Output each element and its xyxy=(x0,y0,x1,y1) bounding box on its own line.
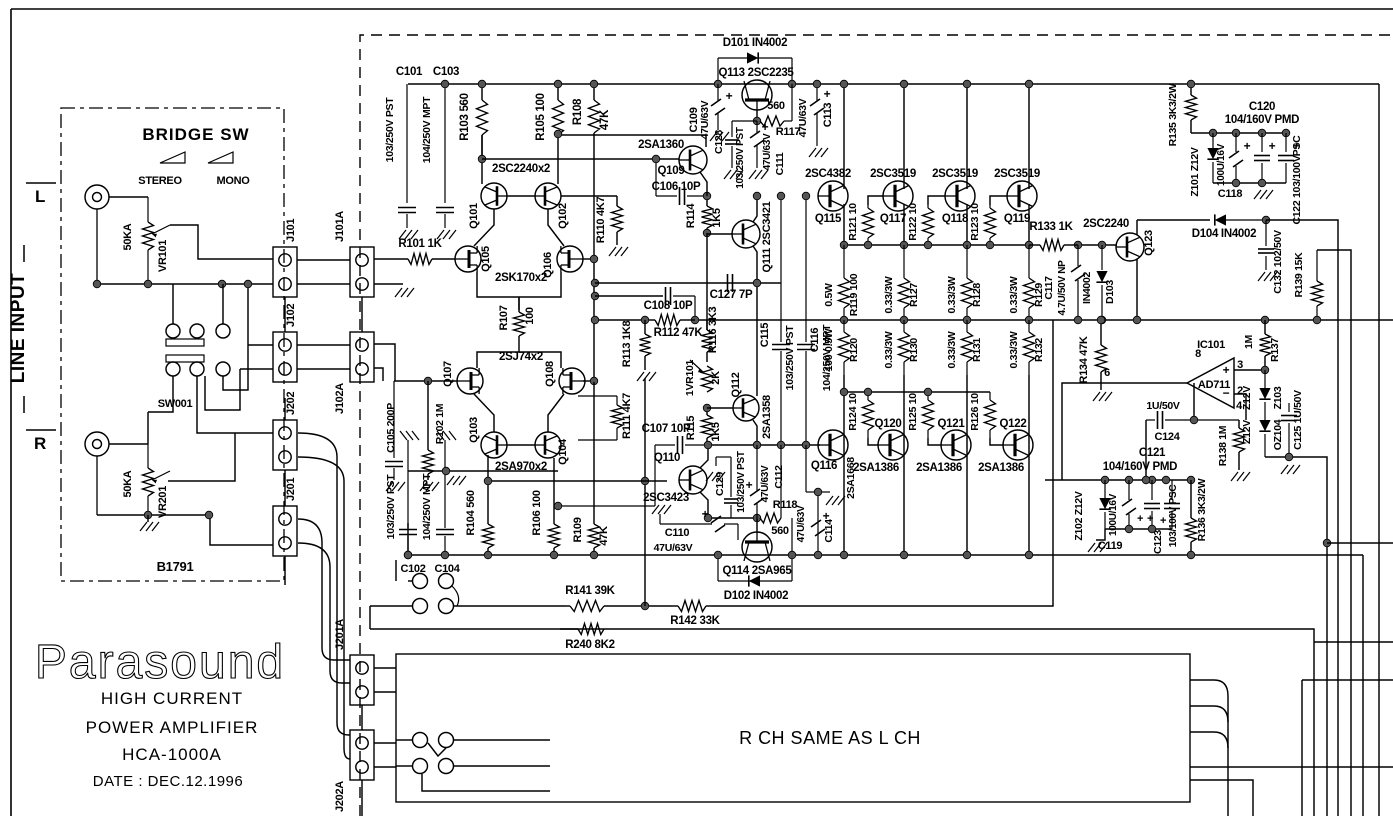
capacitor C128 xyxy=(713,121,757,189)
svg-text:4.7U/50V NP: 4.7U/50V NP xyxy=(1057,260,1068,316)
resistor R129 xyxy=(1008,245,1045,320)
wire xyxy=(370,605,412,607)
wire xyxy=(507,195,535,197)
svg-text:Q105: Q105 xyxy=(480,246,492,272)
svg-text:R102 1M: R102 1M xyxy=(434,403,446,444)
label HIGH CURRENT xyxy=(101,689,243,708)
output rail xyxy=(595,319,648,321)
junction xyxy=(1262,216,1270,224)
label DATE xyxy=(93,773,243,790)
junction xyxy=(590,551,598,559)
junction xyxy=(1261,366,1269,374)
svg-text:Q120: Q120 xyxy=(875,418,902,430)
wire xyxy=(395,560,397,581)
svg-text:R112 47K: R112 47K xyxy=(654,327,704,339)
transistor Q117 xyxy=(870,168,916,225)
wire xyxy=(374,368,383,381)
svg-text:J202A: J202A xyxy=(334,781,346,812)
svg-text:104/250V MPT: 104/250V MPT xyxy=(421,473,433,540)
svg-text:D101 IN4002: D101 IN4002 xyxy=(723,37,787,49)
transistor Q123 xyxy=(1083,218,1155,261)
junction xyxy=(1190,416,1198,424)
wire xyxy=(172,284,174,324)
svg-text:D102 IN4002: D102 IN4002 xyxy=(724,590,788,602)
svg-text:0.33/3W: 0.33/3W xyxy=(1008,276,1020,313)
connector J102 xyxy=(273,304,297,382)
wire xyxy=(990,196,1007,205)
wire xyxy=(756,110,758,121)
transistor Q103 xyxy=(468,417,507,458)
resistor R139 xyxy=(1293,250,1323,320)
svg-text:+: + xyxy=(824,87,831,101)
capacitor C105 xyxy=(385,381,405,491)
svg-text:103/250V PST: 103/250V PST xyxy=(385,474,397,540)
wire xyxy=(990,438,1003,445)
transistor Q110 xyxy=(643,452,707,504)
junction xyxy=(590,80,598,88)
junction xyxy=(1285,453,1293,461)
wire xyxy=(109,443,148,445)
jfet Q108 xyxy=(544,361,585,394)
connector J201A xyxy=(334,619,374,705)
wire xyxy=(583,380,594,382)
svg-text:R101 1K: R101 1K xyxy=(398,238,442,250)
svg-text:J201: J201 xyxy=(285,478,297,501)
junction xyxy=(1187,551,1195,559)
wire xyxy=(706,233,708,330)
svg-text:LINE INPUT: LINE INPUT xyxy=(8,273,29,384)
junction xyxy=(802,192,810,200)
svg-text:C101: C101 xyxy=(396,66,423,78)
bus wire xyxy=(1190,732,1228,748)
ground xyxy=(1231,472,1250,481)
junction xyxy=(703,404,711,412)
svg-text:+: + xyxy=(726,89,733,103)
label 104/160V PMD b xyxy=(1103,461,1177,473)
junction xyxy=(1282,129,1290,137)
bus wire xyxy=(1190,780,1253,816)
wire xyxy=(284,297,286,332)
wire xyxy=(168,433,235,481)
svg-text:J101A: J101A xyxy=(334,211,346,242)
L input jack xyxy=(85,185,109,284)
capacitor C116 xyxy=(797,196,833,445)
junction xyxy=(244,280,252,288)
junction xyxy=(1148,525,1156,533)
wire xyxy=(1362,555,1364,816)
junction xyxy=(404,551,412,559)
svg-text:Q114 2SA965: Q114 2SA965 xyxy=(723,565,793,577)
capacitor C115 xyxy=(759,196,796,445)
junction xyxy=(550,551,558,559)
svg-text:47K: 47K xyxy=(599,109,611,130)
svg-text:J102A: J102A xyxy=(334,383,346,414)
wire xyxy=(843,84,845,189)
svg-text:R107: R107 xyxy=(498,305,510,330)
wire xyxy=(843,204,845,245)
svg-text:Q122: Q122 xyxy=(1000,418,1027,430)
junction xyxy=(864,241,872,249)
bias rail xyxy=(844,244,1032,246)
svg-text:R111 4K7: R111 4K7 xyxy=(621,393,633,439)
wire xyxy=(1266,220,1338,816)
wire xyxy=(640,605,672,607)
bridge-sw dashed box xyxy=(61,108,284,581)
ground xyxy=(1281,465,1300,474)
transistor Q119 xyxy=(994,168,1040,225)
wire xyxy=(298,433,350,735)
wire xyxy=(223,284,248,390)
junction xyxy=(802,441,810,449)
wire xyxy=(474,209,494,246)
svg-text:R122 10: R122 10 xyxy=(907,203,919,241)
resistor R240 xyxy=(370,624,615,652)
C120 bank bottom rail xyxy=(1213,182,1286,184)
svg-text:C117: C117 xyxy=(1043,276,1055,300)
wire xyxy=(170,225,273,259)
label STEREO xyxy=(138,175,182,187)
diode D102 xyxy=(718,518,792,602)
capacitor C108 xyxy=(644,287,695,320)
svg-text:R104 560: R104 560 xyxy=(465,490,477,535)
wire xyxy=(298,457,350,759)
label L xyxy=(26,183,56,206)
svg-text:Z12V: Z12V xyxy=(1241,386,1253,410)
ground xyxy=(706,472,725,481)
junction xyxy=(753,441,761,449)
wire xyxy=(583,258,594,260)
resistor R103 xyxy=(459,84,488,160)
junction xyxy=(840,316,848,324)
svg-text:R136 3K3/2W: R136 3K3/2W xyxy=(1196,478,1208,541)
junction xyxy=(963,80,971,88)
junction xyxy=(1209,129,1217,137)
connector J101A xyxy=(334,211,374,297)
svg-text:C106 10P: C106 10P xyxy=(652,181,701,193)
wire xyxy=(1137,219,1210,221)
junction xyxy=(1025,241,1033,249)
svg-text:R108: R108 xyxy=(572,98,584,125)
capacitor C129 xyxy=(714,451,747,518)
svg-text:Q103: Q103 xyxy=(468,417,480,443)
wire xyxy=(394,380,457,382)
svg-text:R126 10: R126 10 xyxy=(969,393,981,431)
wire xyxy=(454,739,550,741)
junction xyxy=(1074,241,1082,249)
bias rail xyxy=(1078,244,1117,246)
svg-text:C120: C120 xyxy=(1249,101,1275,113)
svg-text:Q111 2SC3421: Q111 2SC3421 xyxy=(761,201,773,272)
resistor R102 xyxy=(423,381,447,480)
switch arrow mono xyxy=(208,152,233,163)
jfet Q105 xyxy=(455,246,492,272)
resistor R128 xyxy=(946,245,983,320)
potentiometer VR101b xyxy=(684,359,722,396)
junction xyxy=(900,316,908,324)
wire xyxy=(843,375,845,555)
wire xyxy=(481,135,483,184)
resistor R109 xyxy=(572,382,610,555)
wire xyxy=(297,344,350,346)
junction xyxy=(478,80,486,88)
switch arrow stereo xyxy=(160,152,185,163)
svg-text:R240 8K2: R240 8K2 xyxy=(565,639,614,651)
wire xyxy=(374,344,395,381)
svg-text:2SA1386: 2SA1386 xyxy=(853,462,899,474)
zener Z103 xyxy=(1241,370,1284,415)
connector J202A xyxy=(334,730,374,812)
svg-text:2SC2240x2: 2SC2240x2 xyxy=(492,163,550,175)
wire xyxy=(422,774,550,791)
svg-text:C127 7P: C127 7P xyxy=(710,289,753,301)
jumper C102/C104 top xyxy=(413,574,454,589)
svg-text:R135 3K3/2W: R135 3K3/2W xyxy=(1167,83,1179,146)
capacitor C127 xyxy=(710,274,753,301)
svg-text:C122 103/100V: C122 103/100V xyxy=(1291,155,1303,224)
svg-text:J202: J202 xyxy=(285,392,297,415)
svg-text:2SC3423: 2SC3423 xyxy=(643,492,689,504)
junction xyxy=(963,241,971,249)
svg-text:100 0.5W: 100 0.5W xyxy=(823,328,835,371)
junction xyxy=(924,241,932,249)
zener OZ104 xyxy=(1241,415,1284,457)
junction xyxy=(404,551,412,559)
wire xyxy=(1378,84,1380,816)
resistor R105 xyxy=(535,84,564,184)
wire xyxy=(374,742,396,744)
junction xyxy=(714,551,722,559)
svg-text:STEREO: STEREO xyxy=(138,175,182,187)
svg-text:2SC3519: 2SC3519 xyxy=(994,168,1040,180)
+V rail xyxy=(408,83,1379,85)
wire xyxy=(604,629,1314,816)
connector J201 xyxy=(273,478,297,556)
resistor R134 xyxy=(1078,320,1107,390)
junction xyxy=(554,130,562,138)
wire xyxy=(753,246,757,396)
svg-text:R133 1K: R133 1K xyxy=(1029,221,1073,233)
R input jack xyxy=(85,432,109,515)
ground xyxy=(1254,190,1273,199)
junction xyxy=(441,551,449,559)
label 104/160V PMD xyxy=(1225,114,1299,126)
transistor Q118 xyxy=(932,168,978,225)
svg-text:C121: C121 xyxy=(1139,447,1166,459)
jfet Q106 xyxy=(542,246,583,278)
svg-text:R132: R132 xyxy=(1033,338,1045,362)
svg-text:C103: C103 xyxy=(433,66,459,78)
wire xyxy=(966,84,968,189)
svg-text:L: L xyxy=(35,187,45,206)
wire xyxy=(1265,457,1327,816)
svg-text:Q102: Q102 xyxy=(557,203,569,229)
svg-text:47U/63V: 47U/63V xyxy=(760,465,771,502)
svg-text:R CH SAME AS L CH: R CH SAME AS L CH xyxy=(739,728,921,748)
wire xyxy=(97,515,273,545)
junction xyxy=(777,441,785,449)
svg-text:0.33/3W: 0.33/3W xyxy=(946,276,958,313)
bus wire xyxy=(1190,706,1228,722)
svg-text:R119 100: R119 100 xyxy=(848,273,860,316)
capacitor C123 xyxy=(1152,480,1180,554)
svg-text:Q117: Q117 xyxy=(880,213,906,225)
capacitor C12z xyxy=(1144,480,1160,529)
connector J102A xyxy=(334,332,374,414)
wire xyxy=(595,295,663,297)
capacitor C125 xyxy=(1281,390,1304,457)
wire xyxy=(700,492,708,518)
svg-text:Q113 2SC2235: Q113 2SC2235 xyxy=(718,67,794,79)
svg-text:1M: 1M xyxy=(1243,334,1255,349)
label POWER AMPLIFIER xyxy=(86,718,259,737)
junction xyxy=(1148,476,1156,484)
jumper C102/C104 bottom xyxy=(413,586,459,614)
wire xyxy=(147,412,149,444)
label HCA-1000A xyxy=(122,745,222,764)
resistor R117 xyxy=(760,84,800,138)
resistor R130 xyxy=(883,320,920,375)
wire xyxy=(1062,383,1187,480)
svg-text:R114: R114 xyxy=(685,203,697,229)
svg-text:103/250V PST: 103/250V PST xyxy=(735,127,746,189)
junction xyxy=(1258,179,1266,187)
-V rail xyxy=(408,554,1363,556)
transistor Q111 xyxy=(732,201,773,272)
svg-text:Q112: Q112 xyxy=(730,372,742,397)
wire xyxy=(966,375,968,555)
wire xyxy=(1028,84,1030,189)
resistor R108 xyxy=(572,84,611,133)
junction xyxy=(1323,539,1331,547)
junction xyxy=(590,255,598,263)
label C102 xyxy=(400,563,425,575)
ground xyxy=(1093,392,1112,401)
label BRIDGE SW xyxy=(142,125,249,144)
svg-text:R: R xyxy=(34,434,46,453)
svg-text:50KA: 50KA xyxy=(122,223,134,250)
wire xyxy=(109,196,148,198)
junction xyxy=(641,477,649,485)
svg-text:C115: C115 xyxy=(759,323,771,348)
junction xyxy=(864,388,872,396)
svg-text:R130: R130 xyxy=(908,338,920,362)
junction xyxy=(1025,316,1033,324)
wire xyxy=(148,376,173,412)
junction xyxy=(1074,316,1082,324)
transistor Q102 xyxy=(535,183,569,229)
wire xyxy=(1234,394,1246,420)
resistor R112 xyxy=(648,315,703,340)
junction xyxy=(554,502,562,510)
svg-text:J101: J101 xyxy=(285,219,297,242)
wire xyxy=(374,283,403,285)
svg-text:0.5W: 0.5W xyxy=(823,283,835,307)
junction xyxy=(1025,551,1033,559)
wire xyxy=(284,556,286,585)
svg-text:BRIDGE SW: BRIDGE SW xyxy=(142,125,249,144)
transistor Q116 xyxy=(811,430,857,499)
resistor R141 xyxy=(565,585,640,612)
svg-text:+: + xyxy=(702,507,709,521)
svg-text:R141 39K: R141 39K xyxy=(565,585,615,597)
wire xyxy=(474,394,494,432)
output rail xyxy=(695,319,1393,321)
wire xyxy=(1327,542,1393,544)
wire xyxy=(507,444,535,446)
wire xyxy=(928,196,945,205)
resistor R135 xyxy=(1167,83,1197,146)
svg-text:C112: C112 xyxy=(773,465,785,489)
C121 bank top rail xyxy=(1045,479,1191,481)
bus wire xyxy=(1302,679,1393,681)
resistor R114 xyxy=(685,196,723,233)
junction xyxy=(1258,129,1266,137)
svg-text:1K5: 1K5 xyxy=(710,422,722,441)
wire xyxy=(205,369,240,410)
svg-text:J102: J102 xyxy=(285,304,297,327)
resistor R120 xyxy=(823,320,860,375)
wire xyxy=(708,517,760,519)
potentiometer VR201 xyxy=(122,444,170,518)
svg-text:+: + xyxy=(1223,363,1230,377)
wire xyxy=(477,272,561,297)
junction xyxy=(1133,316,1141,324)
resistor R118 xyxy=(760,445,797,537)
capacitor C101 xyxy=(384,66,423,239)
wire xyxy=(361,297,363,332)
svg-text:+: + xyxy=(1269,139,1276,153)
resistor R125 xyxy=(907,392,934,438)
svg-text:R118: R118 xyxy=(773,499,798,511)
svg-text:R110 4K7: R110 4K7 xyxy=(595,197,607,244)
junction xyxy=(591,279,599,287)
svg-text:3: 3 xyxy=(1237,359,1243,371)
svg-text:47U/63V: 47U/63V xyxy=(699,100,711,139)
transistor Q114 xyxy=(723,532,793,577)
svg-text:C108 10P: C108 10P xyxy=(644,300,693,312)
svg-text:103/250V PST: 103/250V PST xyxy=(384,97,396,163)
jfet Q107 xyxy=(442,361,483,394)
wire xyxy=(1028,204,1030,245)
wire xyxy=(297,259,350,261)
junction xyxy=(218,280,226,288)
svg-text:VR101: VR101 xyxy=(157,240,169,272)
resistor R137 xyxy=(1243,320,1281,368)
junction xyxy=(1232,129,1240,137)
svg-text:C132 102/50V: C132 102/50V xyxy=(1272,230,1284,294)
svg-text:2SC3519: 2SC3519 xyxy=(870,168,916,180)
capacitor C104 position xyxy=(421,431,456,555)
junction xyxy=(788,551,796,559)
svg-text:R134 47K: R134 47K xyxy=(1078,336,1090,383)
wire xyxy=(477,352,561,368)
svg-text:R125 10: R125 10 xyxy=(907,393,919,431)
svg-text:47U/63V: 47U/63V xyxy=(796,505,807,542)
L-channel dashed boundary xyxy=(360,35,1393,816)
svg-text:2SC2240: 2SC2240 xyxy=(1083,218,1129,230)
junction xyxy=(777,192,785,200)
svg-text:Q108: Q108 xyxy=(544,361,556,387)
junction xyxy=(144,511,152,519)
capacitor C113 xyxy=(797,84,834,157)
junction xyxy=(554,80,562,88)
svg-text:Q123: Q123 xyxy=(1143,230,1155,256)
ground xyxy=(395,288,414,297)
svg-text:Q116: Q116 xyxy=(811,460,837,472)
svg-text:2SA1386: 2SA1386 xyxy=(978,462,1024,474)
svg-text:0.33/3W: 0.33/3W xyxy=(883,276,895,313)
C121 bank bottom rail xyxy=(1105,528,1172,530)
